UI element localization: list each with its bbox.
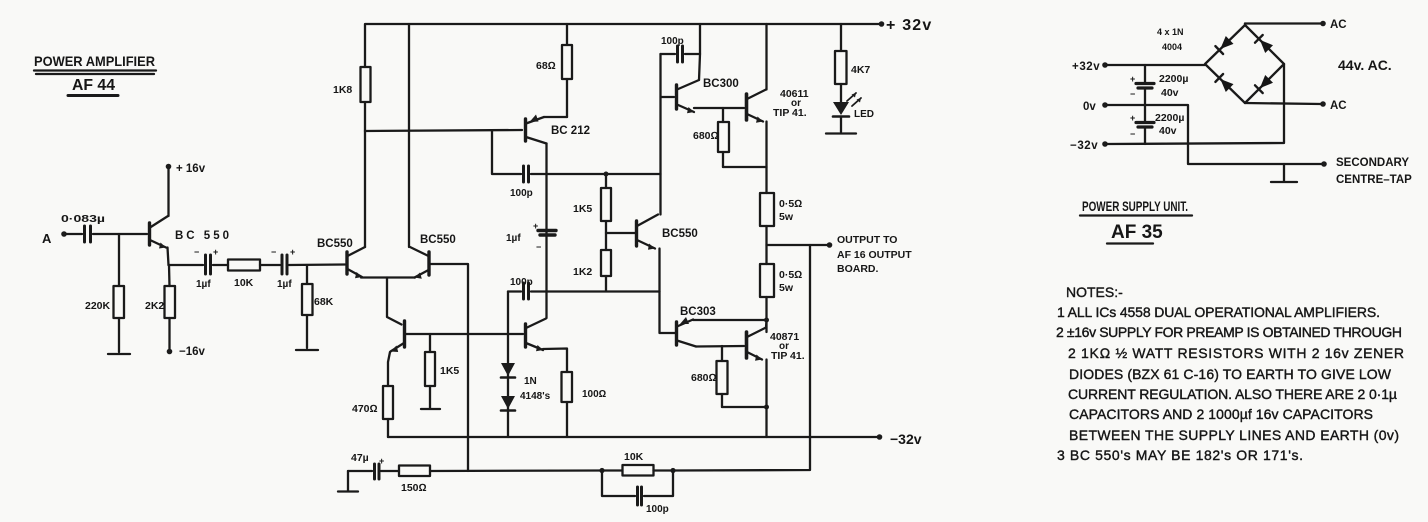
svg-text:BC303: BC303	[680, 306, 716, 318]
svg-text:−: −	[194, 247, 199, 257]
wire diode column	[507, 292, 509, 438]
resistor 0.5R 5W (lower)	[760, 264, 802, 332]
wire C2 to R 10K	[213, 264, 228, 266]
svg-text:−: −	[271, 247, 276, 257]
svg-text:AC: AC	[1330, 100, 1347, 112]
+32v rail	[365, 17, 932, 67]
wire BC303 emitter to output column	[693, 318, 769, 323]
svg-text:4148's: 4148's	[520, 391, 551, 402]
ground (1K5 bias)	[421, 408, 440, 410]
svg-text:2200µ: 2200µ	[1159, 73, 1188, 85]
wire common emitter to Q3 collector	[387, 278, 402, 325]
svg-text:POWER AMPLIFIER: POWER AMPLIFIER	[34, 53, 155, 69]
svg-text:POWER SUPPLY UNIT.: POWER SUPPLY UNIT.	[1082, 198, 1188, 214]
wire divider tap to Q6 base	[606, 232, 635, 234]
svg-text:CAPACITORS AND 2 1000µf 16v CA: CAPACITORS AND 2 1000µf 16v CAPACITORS	[1069, 406, 1373, 422]
wire Q2a collector vertical	[364, 131, 366, 247]
svg-text:−16v: −16v	[179, 346, 206, 358]
-32v rail	[388, 431, 922, 447]
transistor Q2a BC550 (diff pair left)	[317, 238, 365, 278]
svg-text:AF 44: AF 44	[72, 77, 115, 94]
capacitor C5 1uf (drive coupling)	[506, 221, 556, 252]
svg-text:2 ±16v SUPPLY FOR PREAMP IS OB: 2 ±16v SUPPLY FOR PREAMP IS OBTAINED THR…	[1056, 324, 1402, 340]
svg-text:0·5Ω: 0·5Ω	[779, 198, 802, 210]
resistor 0.5R 5W (upper)	[760, 193, 802, 264]
PSU +32v terminal	[1072, 61, 1205, 73]
wire diff emitters join	[361, 276, 415, 278]
wire VAS collector column	[545, 144, 547, 319]
svg-text:LED: LED	[854, 109, 874, 120]
svg-text:40v: 40v	[1159, 125, 1177, 137]
svg-text:100Ω: 100Ω	[582, 389, 607, 400]
svg-text:OUTPUT TO: OUTPUT TO	[837, 234, 897, 246]
transistor Q3 current source	[391, 321, 405, 352]
secondary centre-tap label	[1336, 157, 1412, 186]
svg-text:0v: 0v	[1083, 101, 1096, 113]
svg-text:CENTRE–TAP: CENTRE–TAP	[1336, 174, 1412, 186]
svg-text:AF 35: AF 35	[1111, 222, 1163, 243]
svg-text:1K5: 1K5	[573, 203, 592, 215]
svg-text:TIP 41.: TIP 41.	[773, 107, 807, 119]
svg-text:10K: 10K	[234, 277, 254, 289]
resistor 10K (input)	[228, 260, 260, 290]
transistor Q4 BC212 (PNP VAS)	[526, 115, 591, 144]
transistor Q2b BC550 (diff pair right)	[410, 234, 456, 279]
svg-text:1K2: 1K2	[573, 266, 592, 278]
svg-text:+ 32v: + 32v	[886, 17, 932, 34]
svg-text:0·5Ω: 0·5Ω	[779, 269, 802, 281]
svg-text:100p: 100p	[661, 36, 684, 47]
svg-text:1N: 1N	[524, 376, 537, 387]
wire rail to Q2b collector	[408, 24, 410, 247]
resistor 10K (feedback)	[599, 451, 675, 476]
capacitor C1 0.083u	[61, 214, 105, 242]
svg-text:TIP 41.: TIP 41.	[771, 350, 805, 362]
svg-text:68Ω: 68Ω	[536, 60, 556, 72]
svg-text:BC 212: BC 212	[551, 125, 590, 137]
svg-text:44v. AC.: 44v. AC.	[1338, 57, 1392, 73]
svg-text:47µ: 47µ	[351, 452, 369, 464]
svg-text:2200µ: 2200µ	[1155, 112, 1184, 124]
svg-text:+: +	[213, 247, 218, 257]
svg-text:BETWEEN THE SUPPLY LINES AND E: BETWEEN THE SUPPLY LINES AND EARTH (0v)	[1069, 427, 1399, 443]
ground (47u)	[338, 490, 358, 492]
svg-text:100p: 100p	[510, 277, 533, 288]
capacitor C2 1uf electrolytic	[194, 247, 218, 290]
svg-text:+32v: +32v	[1072, 61, 1100, 73]
svg-text:0·083µ: 0·083µ	[61, 214, 105, 225]
wire Q1 emitter down	[168, 248, 169, 266]
svg-text:5w: 5w	[779, 282, 794, 294]
svg-text:2K2: 2K2	[145, 300, 164, 312]
resistor 2K2	[145, 265, 175, 349]
svg-text:BC300: BC300	[703, 78, 739, 90]
svg-text:BOARD.: BOARD.	[837, 263, 878, 275]
svg-text:4004: 4004	[1162, 42, 1182, 52]
ground (LED)	[826, 132, 856, 134]
wire C3 to Q2a base	[289, 263, 345, 266]
svg-text:1µf: 1µf	[196, 279, 211, 290]
wire Q2b base feedback line	[429, 264, 468, 471]
wire feedback line to output	[673, 245, 810, 471]
svg-text:100p: 100p	[510, 188, 533, 199]
wire 10K to C3	[260, 264, 280, 266]
LED indicator	[833, 93, 874, 132]
wire BC300 collector to rail	[699, 24, 700, 80]
svg-text:BC550: BC550	[420, 234, 456, 246]
PSU -32v terminal	[1070, 64, 1284, 152]
resistor 680R (upper)	[693, 108, 729, 167]
svg-text:150Ω: 150Ω	[401, 482, 427, 494]
resistor 68R	[536, 24, 572, 117]
svg-text:BC550: BC550	[662, 228, 698, 240]
svg-text:NOTES:-: NOTES:-	[1066, 284, 1123, 300]
AC terminal (upper)	[1245, 19, 1347, 31]
node A input terminal	[42, 231, 67, 246]
title POWER AMPLIFIER AF44	[34, 53, 156, 96]
svg-text:1K5: 1K5	[440, 365, 459, 377]
AC terminal (lower)	[1245, 100, 1347, 112]
resistor 1K2	[573, 250, 611, 291]
svg-text:+: +	[533, 221, 538, 231]
capacitor C6 100p (lower drive)	[508, 277, 660, 299]
transistor Q9 BC303 (PNP)	[677, 306, 716, 347]
svg-text:680Ω: 680Ω	[693, 130, 719, 142]
transistor Q7 BC300	[661, 78, 739, 113]
diode D2 1N4148	[501, 376, 551, 411]
transistor Q5 bias	[526, 319, 547, 352]
wire 680R to emitter column	[723, 166, 767, 168]
svg-text:10K: 10K	[624, 451, 644, 463]
svg-text:SECONDARY: SECONDARY	[1336, 157, 1409, 169]
transistor Q6 BC550	[637, 215, 698, 250]
title POWER SUPPLY UNIT AF35	[1080, 198, 1192, 244]
wire bias line (Q3 base to Q5 base)	[405, 333, 524, 335]
svg-text:470Ω: 470Ω	[352, 403, 378, 415]
+16v supply terminal	[166, 163, 206, 216]
svg-text:4K7: 4K7	[851, 64, 870, 76]
capacitor C7 100p (BC300 b-c)	[661, 36, 701, 62]
svg-text:BC550: BC550	[317, 238, 353, 250]
bridge diode (bottom-left)	[1215, 74, 1233, 92]
svg-text:220K: 220K	[85, 300, 111, 312]
bridge diode (bottom-right)	[1255, 75, 1273, 93]
wire input node to C1	[66, 233, 82, 235]
resistor 4K7	[835, 24, 870, 102]
svg-text:1 ALL ICs 4558 DUAL OPERATIONA: 1 ALL ICs 4558 DUAL OPERATIONAL AMPLIFIE…	[1057, 304, 1380, 320]
notes text	[1056, 284, 1404, 463]
svg-text:2 1KΩ ½ WATT RESISTORS WITH 2: 2 1KΩ ½ WATT RESISTORS WITH 2 16v ZENER	[1068, 345, 1404, 361]
svg-text:−32v: −32v	[890, 431, 922, 447]
capacitor C9 100p (across 10K)	[602, 471, 673, 516]
svg-text:AF 16 OUTPUT: AF 16 OUTPUT	[837, 249, 912, 261]
svg-text:−: −	[1130, 129, 1135, 139]
svg-text:−: −	[536, 242, 541, 252]
svg-text:1K8: 1K8	[333, 84, 352, 96]
resistor 1K5 (bias)	[425, 334, 459, 408]
ground (220K)	[108, 353, 130, 355]
resistor 220K	[85, 234, 124, 352]
ground (68K)	[296, 349, 318, 351]
svg-text:+: +	[290, 247, 295, 257]
svg-text:+: +	[1130, 74, 1135, 84]
resistor 150R	[381, 466, 601, 495]
svg-text:3 BC 550's MAY BE 182's OR 171: 3 BC 550's MAY BE 182's OR 171's.	[1057, 447, 1303, 463]
capacitor C3 1uf electrolytic	[271, 247, 295, 290]
svg-text:68K: 68K	[314, 296, 334, 308]
svg-text:BC 550: BC 550	[175, 230, 229, 242]
svg-text:5w: 5w	[779, 211, 794, 223]
svg-text:+ 16v: + 16v	[176, 163, 206, 175]
wire 680R lower to Q10 emitter column	[722, 405, 769, 410]
resistor 1K8	[333, 67, 371, 131]
resistor 100R	[543, 349, 607, 438]
transistor Q1 BC550	[150, 216, 230, 249]
svg-text:DIODES (BZX 61 C-16) TO EARTH: DIODES (BZX 61 C-16) TO EARTH TO GIVE LO…	[1069, 366, 1392, 382]
svg-text:−: −	[1130, 89, 1135, 99]
wire Q8 collector to rail	[765, 24, 767, 90]
diode D1 1N4148	[501, 363, 515, 378]
svg-text:−32v: −32v	[1070, 140, 1098, 152]
svg-text:100p: 100p	[646, 504, 669, 515]
svg-text:1µf: 1µf	[506, 233, 521, 244]
wire Q6 emitter down to BC303 base	[660, 249, 676, 334]
svg-text:40v: 40v	[1161, 87, 1179, 99]
wire BC300 emitter to Q8 base	[694, 107, 744, 109]
wire Q8 emitter down	[765, 122, 767, 194]
bridge rectifier diamond	[1205, 25, 1284, 103]
resistor 1K5 (drive divider)	[573, 172, 611, 251]
bridge diode (top-right)	[1255, 35, 1273, 53]
svg-text:4 x 1N: 4 x 1N	[1157, 27, 1184, 37]
transistor Q10 40871/TIP41 (lower power)	[747, 328, 805, 363]
svg-text:AC: AC	[1330, 19, 1347, 31]
svg-text:680Ω: 680Ω	[691, 372, 717, 384]
capacitor C8 47u	[348, 452, 384, 491]
resistor 470R	[352, 352, 393, 437]
resistor 680R (lower)	[691, 346, 728, 407]
wire emitter node horizontal	[169, 264, 204, 266]
wire node 1K8/Q2a-collector to BC212 base	[365, 130, 522, 131]
output node to AF16 board	[767, 234, 913, 275]
capacitor C4 100p (miller)	[492, 131, 661, 200]
ground (secondary centre-tap)	[1271, 164, 1297, 182]
wire BC303 collector to Q10 base	[696, 345, 744, 348]
capacitor 2200u 40v (lower)	[1130, 105, 1184, 144]
capacitor 2200u 40v (upper)	[1130, 65, 1188, 105]
wire Q10 emitter to -32v rail	[765, 360, 767, 438]
resistor 68K	[302, 265, 334, 348]
transistor Q8 40611/TIP41 (upper power)	[747, 88, 809, 123]
wire C1 to Q1 base	[93, 233, 147, 235]
PSU 0v terminal	[1083, 101, 1327, 167]
wire Q6 collector / BC300 base column	[659, 54, 661, 215]
wire Q10 collector up to output column	[765, 321, 768, 328]
bridge diode (top-left)	[1215, 36, 1233, 54]
-16v supply terminal	[167, 346, 206, 358]
svg-text:1µf: 1µf	[277, 279, 292, 290]
svg-text:+: +	[1130, 113, 1135, 123]
bridge label 4 x 1N4004	[1157, 27, 1184, 52]
svg-text:CURRENT REGULATION. ALSO THERE: CURRENT REGULATION. ALSO THERE ARE 2 0·1…	[1068, 386, 1397, 402]
svg-text:A: A	[42, 231, 52, 246]
svg-text:+: +	[379, 456, 384, 466]
